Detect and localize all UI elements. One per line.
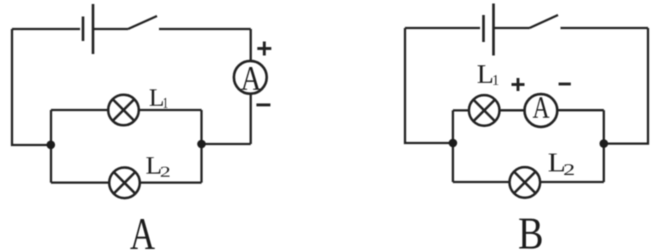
wire A: right branch vertical: [200, 110, 202, 183]
wire A: top-left horizontal from corner to battery: [12, 28, 80, 30]
plus sign (ammeter A polarity +): [257, 42, 271, 56]
lamp L2 (circuit A): [109, 168, 140, 199]
wire A: left branch vertical: [50, 110, 52, 183]
label 1 subscript (L1 circuit B): [493, 75, 498, 85]
caption A (circuit A): [130, 219, 155, 249]
wire A: top branch left segment: [51, 109, 108, 111]
label L (lamp L2 circuit B): [549, 154, 564, 172]
wire B: left outer side: [405, 28, 453, 143]
minus sign (ammeter A polarity -): [256, 103, 270, 106]
wire A: left outer side: [12, 29, 51, 145]
label A inside ammeter A1: [241, 67, 261, 90]
label 2 subscript (L2 circuit B): [564, 164, 574, 175]
wire B: right branch vertical: [603, 110, 605, 182]
wire A: ammeter to junction level: [250, 94, 252, 144]
wire B: left branch vertical: [452, 110, 454, 182]
wire B: bottom branch left segment: [453, 181, 510, 183]
wire B: lamp L1 to ammeter: [500, 109, 525, 111]
caption B (circuit B): [519, 219, 541, 249]
switch S1 (circuit A, open): [128, 16, 157, 29]
node: right junction dot (circuit A): [197, 140, 206, 149]
wire A: switch to top-right corner: [159, 28, 251, 30]
wire A: right side down to ammeter: [250, 29, 252, 61]
ammeter A2 (circuit B): [525, 94, 558, 127]
label 2 subscript (L2 circuit A): [161, 167, 170, 177]
battery BT1 (circuit A): [83, 4, 93, 54]
plus sign (ammeter B polarity +): [512, 78, 525, 91]
wire B: right outer side: [604, 28, 648, 144]
wire A: battery to switch: [94, 28, 128, 30]
wire A: top branch right segment: [139, 109, 202, 111]
lamp L1 (circuit A): [108, 95, 139, 126]
battery BT2 (circuit B): [484, 4, 494, 56]
wire B: battery to switch: [495, 27, 530, 29]
wire A: bottom branch left segment: [51, 181, 109, 183]
wire B: ammeter to right branch: [557, 109, 604, 111]
wire B: switch to top-right corner: [561, 27, 649, 29]
switch S2 (circuit B, open): [530, 15, 559, 28]
wire B: top-left horizontal to battery: [405, 27, 480, 29]
lamp L1 (circuit B): [469, 95, 500, 126]
wire A: bottom branch right segment: [140, 181, 202, 183]
wire B: top branch to lamp L1: [453, 109, 469, 111]
node: left junction dot (circuit B): [449, 139, 458, 148]
label L (lamp L2 circuit A): [146, 157, 160, 173]
wire B: bottom branch right segment: [540, 181, 604, 183]
node: right junction dot (circuit B): [600, 139, 609, 148]
ammeter A1 (circuit A): [234, 61, 267, 94]
label A inside ammeter A2: [533, 97, 550, 117]
label 1 subscript (L1 circuit A): [164, 98, 168, 108]
wire A: to right junction: [202, 143, 251, 145]
label L (lamp L1 circuit A): [150, 89, 163, 105]
node: left junction dot (circuit A): [47, 141, 56, 150]
lamp L2 (circuit B): [510, 167, 541, 198]
label L (lamp L1 circuit B): [478, 65, 493, 83]
minus sign (ammeter B polarity -): [559, 83, 571, 86]
